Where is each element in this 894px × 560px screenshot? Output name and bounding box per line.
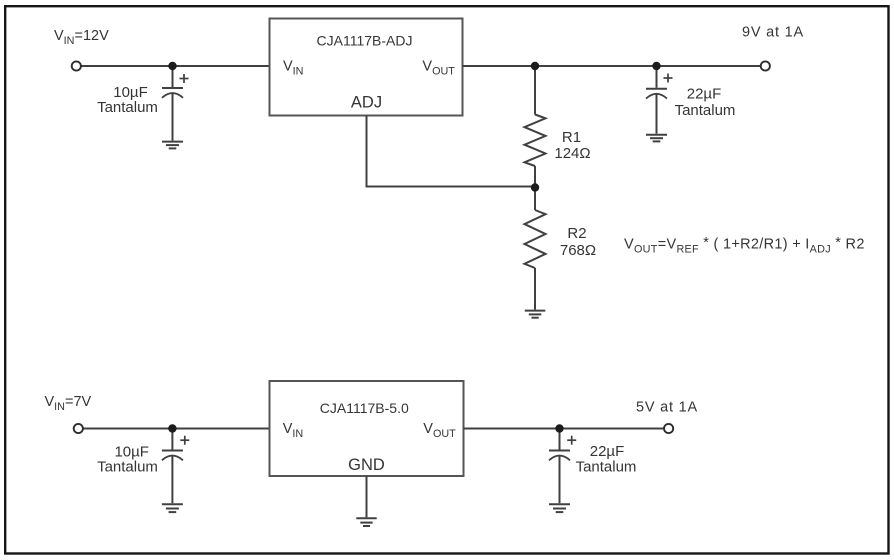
ground for C3 [162,504,183,512]
ground for C4 [549,504,570,512]
input terminal bottom [74,424,83,433]
capacitor C2 22uF body [646,66,667,134]
svg-text:Tantalum: Tantalum [576,459,637,476]
svg-text:R1: R1 [562,129,581,146]
capacitor C3 10uF body [162,429,183,504]
svg-text:768Ω: 768Ω [560,242,596,259]
junction node at C4 [555,424,563,432]
capacitor C4 22uF body [549,429,570,504]
junction node R1/R2/ADJ [531,183,539,191]
output terminal top 9V [761,61,770,70]
wire U1 VOUT to output terminal [463,65,761,67]
C1 plus polarity mark [180,74,189,83]
capacitor C1 10uF body [162,66,183,141]
junction node at C3/input [168,424,176,432]
svg-text:22µF: 22µF [590,443,625,460]
svg-text:5V at 1A: 5V at 1A [636,400,698,416]
junction node at C2 [652,62,660,70]
regulator U1 CJA1117B-ADJ box [270,19,463,116]
resistor R1 124ohm [525,66,546,188]
svg-text:CJA1117B-5.0: CJA1117B-5.0 [320,400,409,416]
output terminal bottom 5V [664,424,673,433]
C3 plus polarity mark [180,436,189,445]
C2 plus polarity mark [664,74,673,83]
junction node at C1/input [168,62,176,70]
resistor R2 768ohm [525,188,546,310]
svg-text:GND: GND [348,456,385,474]
wire U2 VOUT to output terminal [464,428,665,430]
svg-text:Tantalum: Tantalum [97,99,158,116]
ground for C2 [646,135,667,142]
svg-text:Tantalum: Tantalum [97,458,158,475]
wire input to U1 VIN [82,65,270,67]
svg-text:ADJ: ADJ [351,94,382,112]
svg-text:22µF: 22µF [687,86,722,103]
svg-text:CJA1117B-ADJ: CJA1117B-ADJ [317,33,413,49]
svg-text:R2: R2 [567,225,586,242]
wire U2 GND pin to ground [366,476,368,517]
C4 plus polarity mark [567,436,576,445]
ground for U2 GND [356,518,376,526]
ground for R2 [525,311,546,318]
junction node at R1 top [531,62,539,70]
input terminal top [72,61,81,70]
svg-text:9V at 1A: 9V at 1A [742,25,804,41]
svg-text:124Ω: 124Ω [554,145,590,162]
wire input to U2 VIN [84,428,270,430]
regulator U2 CJA1117B-5.0 box [270,381,464,476]
svg-text:Tantalum: Tantalum [675,102,736,119]
wire U1 ADJ pin down and right to R1/R2 node [367,116,536,187]
ground for C1 [162,142,183,149]
